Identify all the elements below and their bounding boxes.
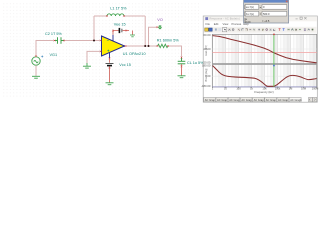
svg-text:VO: VO [157, 18, 163, 22]
svg-text:563.0: 563.0 [263, 12, 270, 16]
output pin VO [158, 25, 161, 29]
voltage source VG1 [32, 57, 40, 65]
VG1 terminal marker [35, 55, 37, 57]
svg-text:10M: 10M [301, 87, 306, 91]
svg-text:Frequency (Hz): Frequency (Hz) [254, 90, 273, 94]
svg-text:AC Grap: AC Grap [205, 98, 216, 102]
svg-text:Gain (dB): Gain (dB) [205, 45, 208, 56]
title bar [204, 16, 317, 21]
node junction feedback-output [144, 45, 146, 47]
C2 terminal markers [54, 40, 65, 42]
svg-text:VG1: VG1 [50, 53, 58, 57]
CL terminal markers [181, 57, 183, 68]
graph tab bar [204, 97, 317, 101]
op-amp input polarity marks [107, 41, 110, 52]
phase curve [213, 66, 317, 87]
phase plot panel [201, 63, 317, 88]
ground at non-inverting input [83, 63, 91, 68]
dialog row 2 [245, 11, 259, 16]
cursor dialog window [244, 0, 289, 24]
svg-text:a:x f(x): a:x f(x) [246, 5, 254, 9]
op-amp output terminal marker [125, 45, 127, 47]
wire VG1 bottom [35, 65, 37, 76]
svg-text:Vee 15: Vee 15 [114, 23, 126, 27]
svg-text:Edit: Edit [214, 22, 219, 26]
gain curve [213, 36, 317, 63]
wire non-inverting input to ground [87, 51, 102, 63]
svg-text:AC Grap: AC Grap [217, 98, 228, 102]
battery Vee 15 [119, 28, 129, 33]
svg-text:AC Grap: AC Grap [278, 98, 289, 102]
wire op-amp output to R1 [125, 45, 158, 47]
svg-text:AC Grap: AC Grap [229, 98, 240, 102]
gain reference line [212, 51, 316, 53]
wire feedback top right segment [124, 15, 145, 17]
capacitor CL [178, 58, 186, 64]
op-amp U1 [102, 36, 125, 56]
svg-text:180.00: 180.00 [202, 63, 211, 67]
frequency axis labels [212, 87, 318, 91]
wire feedback top left segment [94, 15, 107, 17]
VG1 plus marker [41, 56, 43, 58]
dialog row spinners [244, 5, 246, 22]
svg-text:100M: 100M [312, 87, 319, 91]
L1 terminal markers [106, 15, 125, 17]
ground below VG1 [32, 76, 40, 78]
svg-text:AC Grap: AC Grap [266, 98, 277, 102]
op-amp Vee pin [112, 35, 114, 41]
svg-text:C2 1T 5%: C2 1T 5% [45, 32, 62, 36]
svg-text:0.00: 0.00 [245, 20, 251, 24]
svg-text:b:x f(x): b:x f(x) [246, 12, 254, 16]
svg-text:Vcc 15: Vcc 15 [119, 63, 131, 67]
svg-text:= +0.5: = +0.5 [262, 19, 270, 23]
ground below CL [178, 76, 186, 78]
svg-text:R1 600m 5%: R1 600m 5% [157, 38, 180, 42]
cursor line [273, 34, 275, 87]
svg-text:View: View [223, 22, 229, 26]
wire VO probe [149, 27, 158, 46]
svg-text:1M: 1M [289, 87, 293, 91]
svg-text:File: File [206, 22, 211, 26]
svg-text:AC Grap: AC Grap [254, 98, 265, 102]
Vee terminal markers [112, 30, 127, 32]
node junction VO [148, 45, 150, 47]
wire VG1 to C2 [36, 41, 55, 58]
wire Vcc to ground [109, 67, 111, 83]
analysis window frame [203, 16, 317, 102]
inductor L1 [107, 14, 124, 16]
svg-text:L1 1T 5%: L1 1T 5% [110, 7, 127, 11]
dialog row 1 [245, 5, 259, 10]
menu bar [206, 22, 250, 26]
wire C2 to op-amp inverting input [64, 40, 102, 42]
wire feedback left vertical [93, 16, 95, 41]
svg-text:Process: Process [232, 22, 242, 26]
battery Vcc 15 [106, 64, 114, 66]
node junction at inverting input [93, 40, 95, 42]
svg-text:100k: 100k [275, 87, 281, 91]
svg-text:Phase [deg]: Phase [deg] [205, 68, 208, 82]
svg-text:60.00: 60.00 [204, 33, 211, 37]
Vcc terminal markers [109, 57, 111, 68]
op-amp Vcc pin [109, 53, 111, 58]
ground below Vcc [106, 83, 114, 85]
svg-text:AC Graph: AC Graph [290, 98, 302, 102]
VO terminal marker [156, 26, 158, 28]
op-amp input terminal markers [100, 40, 102, 53]
svg-text:AC Grap: AC Grap [241, 98, 252, 102]
svg-text:-180.00: -180.00 [201, 84, 211, 88]
Vee supply wire [113, 31, 119, 35]
wire R1 to CL corner [168, 46, 182, 58]
wire feedback right vertical [144, 16, 146, 46]
R1 terminal markers [157, 45, 169, 47]
ground at Vee [130, 31, 135, 37]
svg-text:Response - AC Bode(s): Response - AC Bode(s) [210, 17, 240, 21]
wire CL to ground [181, 64, 183, 75]
toolbar [204, 27, 317, 33]
capacitor C2 [55, 37, 65, 43]
svg-text:U1 OPAx210: U1 OPAx210 [123, 52, 146, 56]
gain plot panel [203, 33, 317, 64]
resistor R1 [158, 44, 168, 47]
Vcc supply wire [109, 58, 111, 63]
svg-text:100: 100 [236, 87, 241, 91]
frequency axis ticks [213, 87, 317, 88]
